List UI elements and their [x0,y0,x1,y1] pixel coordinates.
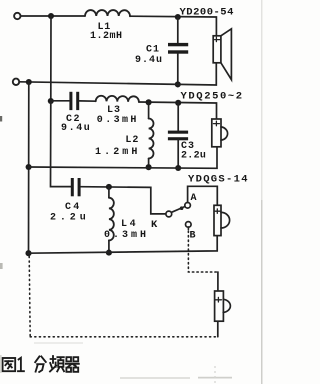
wire C4 to L4 junction and switch feed [81,187,166,214]
switch K pole [166,211,172,217]
wire dotted return loop left [29,256,30,336]
wire C1 bottom lead [177,54,179,85]
node junction C3 top [175,100,181,106]
wire node A to speaker3 [188,186,218,205]
speaker YD200-54 [213,29,231,80]
capacitor C3 [168,131,188,141]
char fen (divide) [35,356,46,372]
wire return vertical [28,82,30,253]
svg-text:1.2mH: 1.2mH [95,147,141,158]
inductor L2 [148,102,150,118]
svg-text:C1: C1 [146,44,160,55]
svg-text:1.2mH: 1.2mH [90,31,123,42]
svg-text:K: K [151,219,158,231]
svg-text:YDQGS-14: YDQGS-14 [188,173,249,185]
wire C3 bottom lead [177,140,179,169]
capacitor C4 [71,178,81,196]
speaker YDQGS-14 [214,205,230,235]
char tu (figure) [3,358,16,371]
wire hot vertical feed lower [51,101,72,187]
node junction rail3 left [25,250,31,256]
svg-text:L2: L2 [125,135,139,146]
svg-text:9.4u: 9.4u [135,55,163,66]
wire L1 to speaker [130,16,216,36]
caption figure 1 crossover [3,356,79,372]
node junction C1 top [175,14,181,20]
svg-text:L4: L4 [121,219,138,230]
wire L3 to speaker2 [139,102,217,119]
wire return rail 3 [29,236,218,254]
inductor L3 [96,96,139,102]
switch K lever [172,206,186,212]
node A [185,203,191,209]
svg-text:2.2u: 2.2u [181,151,206,162]
capacitor C1 [168,43,188,54]
speaker YDQ250-2 [212,119,228,147]
wire dashed from node B [187,227,189,230]
svg-text:YDQ250~2: YDQ250~2 [181,91,244,103]
svg-text:9.4u: 9.4u [61,123,91,134]
svg-text:2.2u: 2.2u [50,213,90,224]
node junction C3 bottom [175,165,181,171]
char 1 [18,358,24,371]
node junction L4 top [106,184,112,190]
svg-text:0.3mH: 0.3mH [97,115,139,126]
node junction top feed [48,13,54,19]
wire return rail 2 [29,147,217,169]
wire top feed [21,15,85,17]
wire speaker4 bottom lead [217,321,219,337]
capacitor C2 [69,92,79,110]
node junction return tap [26,79,32,85]
wire return rail 1 [19,63,216,85]
svg-text:0.3mH: 0.3mH [104,230,149,241]
terminal input + [14,13,20,19]
inductor L4 [108,187,110,198]
svg-text:B: B [190,230,196,241]
node junction L2 top [146,99,152,105]
svg-text:A: A [191,193,197,204]
wire C3 top lead [177,103,179,131]
wire branch2 to C2 [51,100,69,102]
wire C1 top lead [177,17,179,43]
svg-text:YD200-54: YD200-54 [180,6,234,18]
char qi (device) [66,357,79,372]
svg-text:C4: C4 [65,202,82,213]
inductor L1 [85,10,130,16]
node junction rail2 left [26,164,32,170]
node junction C2 branch [48,98,54,104]
wire dotted return loop bottom [30,336,216,338]
node junction C1 bottom [175,81,181,87]
wire hot vertical feed [50,16,52,101]
wire speaker4 top lead [217,272,219,291]
node junction L4 bottom [106,250,112,256]
wire C2 to L3 [79,100,95,102]
node B [186,222,192,228]
node junction L2 bottom [146,164,152,170]
terminal input - [13,79,19,85]
char pin (frequency) [50,356,64,371]
speaker optional tweeter [215,291,231,321]
